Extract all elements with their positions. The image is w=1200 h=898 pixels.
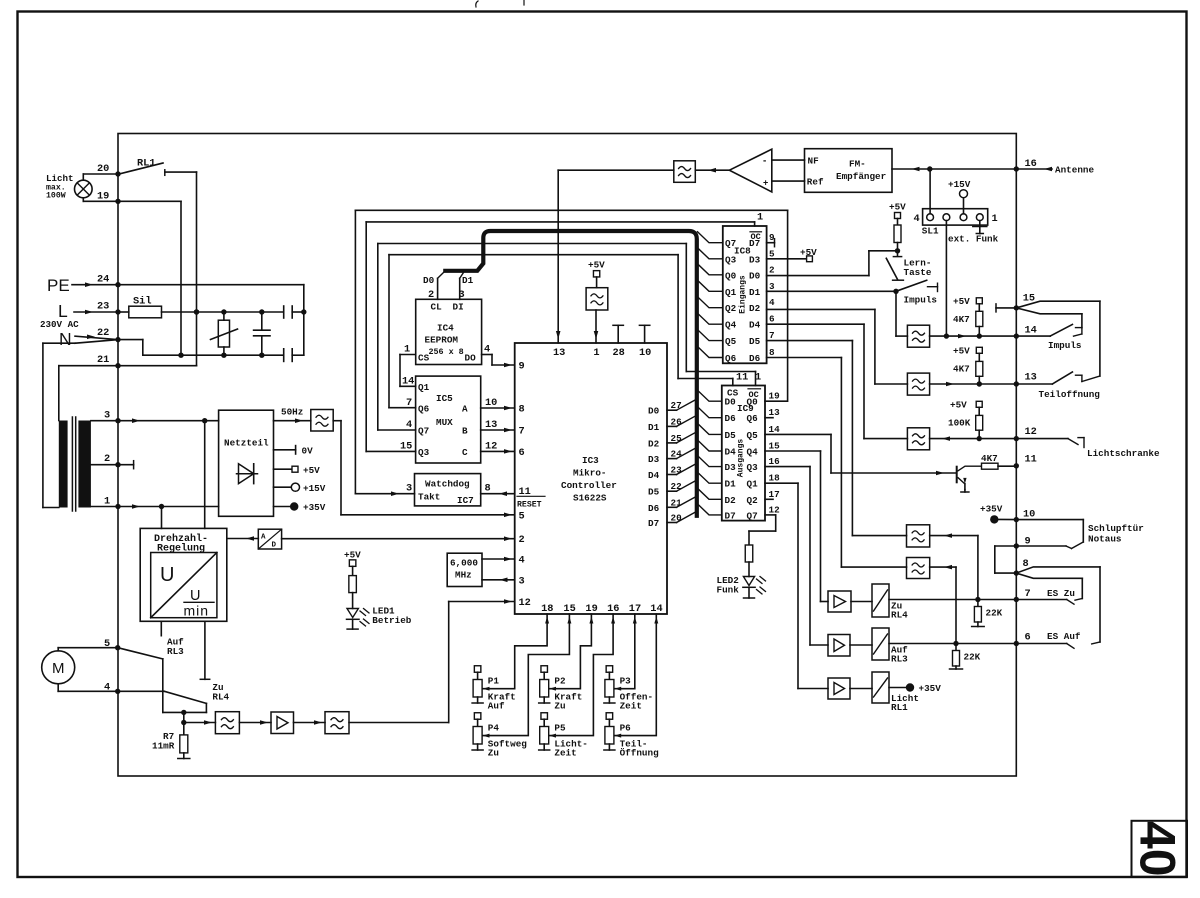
svg-text:Notaus: Notaus — [1088, 534, 1122, 545]
svg-text:Q7: Q7 — [747, 510, 758, 521]
svg-text:D5: D5 — [749, 336, 761, 347]
svg-text:S1622S: S1622S — [573, 493, 607, 504]
svg-text:2: 2 — [104, 453, 110, 465]
svg-text:2: 2 — [428, 289, 434, 301]
svg-text:P1: P1 — [488, 676, 500, 687]
svg-text:Q1: Q1 — [747, 479, 759, 490]
svg-text:D0: D0 — [648, 406, 660, 417]
svg-text:D1: D1 — [725, 479, 737, 490]
svg-text:D7: D7 — [648, 518, 659, 529]
svg-text:D7: D7 — [749, 238, 760, 249]
svg-text:+5V: +5V — [800, 247, 817, 258]
svg-text:D4: D4 — [648, 470, 660, 481]
svg-text:+15V: +15V — [303, 483, 326, 494]
svg-text:L: L — [58, 301, 68, 321]
svg-text:Zeit: Zeit — [620, 701, 642, 712]
svg-text:C: C — [462, 447, 468, 458]
svg-text:Teiloffnung: Teiloffnung — [1039, 389, 1101, 400]
svg-text:PE: PE — [47, 276, 70, 295]
svg-text:1: 1 — [757, 212, 763, 224]
svg-text:A: A — [462, 404, 468, 415]
svg-text:11mR: 11mR — [152, 741, 175, 752]
svg-text:Antenne: Antenne — [1055, 165, 1094, 176]
svg-text:Q7: Q7 — [725, 238, 736, 249]
svg-text:min: min — [184, 603, 210, 619]
svg-text:D6: D6 — [749, 353, 761, 364]
svg-text:3: 3 — [406, 483, 412, 495]
svg-text:D2: D2 — [725, 495, 737, 506]
svg-text:MUX: MUX — [436, 417, 453, 428]
svg-text:Zu: Zu — [554, 701, 565, 712]
svg-text:SL1: SL1 — [922, 226, 939, 237]
svg-text:ES Auf: ES Auf — [1047, 631, 1081, 642]
svg-text:4: 4 — [769, 297, 775, 308]
svg-text:RL4: RL4 — [891, 610, 908, 621]
svg-text:3: 3 — [769, 281, 775, 292]
svg-text:Impuls: Impuls — [1048, 340, 1082, 351]
svg-text:3: 3 — [519, 575, 525, 587]
svg-text:Q1: Q1 — [725, 287, 737, 298]
svg-text:Empfänger: Empfänger — [836, 171, 886, 182]
svg-text:D3: D3 — [648, 454, 660, 465]
svg-text:MHz: MHz — [455, 570, 472, 581]
svg-text:RL4: RL4 — [212, 692, 229, 703]
svg-text:-: - — [763, 156, 766, 167]
svg-text:DI: DI — [453, 302, 464, 313]
svg-text:Auf: Auf — [488, 701, 505, 712]
svg-text:Q0: Q0 — [747, 397, 759, 408]
svg-text:P5: P5 — [554, 723, 566, 734]
svg-text:CL: CL — [431, 302, 443, 313]
svg-text:4: 4 — [519, 555, 525, 567]
svg-text:13: 13 — [769, 407, 781, 418]
svg-text:B: B — [462, 426, 468, 437]
svg-text:Q2: Q2 — [725, 303, 737, 314]
svg-text:Zu: Zu — [488, 748, 499, 759]
svg-text:ext. Funk: ext. Funk — [948, 234, 999, 245]
svg-text:+5V: +5V — [303, 465, 320, 476]
svg-text:Licht: Licht — [46, 173, 74, 184]
svg-text:22K: 22K — [964, 652, 981, 663]
svg-text:100W: 100W — [46, 192, 66, 201]
svg-text:EEPROM: EEPROM — [425, 335, 459, 346]
svg-text:ES Zu: ES Zu — [1047, 588, 1075, 599]
svg-text:2: 2 — [769, 264, 775, 275]
svg-text:13: 13 — [1025, 372, 1037, 384]
svg-text:Q2: Q2 — [747, 495, 759, 506]
svg-text:Controller: Controller — [561, 480, 617, 491]
svg-text:19: 19 — [769, 391, 781, 402]
svg-text:10: 10 — [1023, 509, 1035, 521]
svg-text:12: 12 — [519, 597, 531, 609]
svg-text:230V AC: 230V AC — [40, 319, 79, 330]
svg-text:Ref: Ref — [807, 177, 824, 188]
svg-text:+5V: +5V — [344, 550, 361, 561]
svg-text:Funk: Funk — [717, 584, 740, 595]
svg-text:6: 6 — [519, 447, 525, 459]
svg-text:Q6: Q6 — [747, 413, 759, 424]
svg-text:5: 5 — [519, 510, 525, 522]
svg-text:Q7: Q7 — [418, 426, 429, 437]
svg-text:D0: D0 — [423, 275, 435, 286]
svg-text:Ausgangs: Ausgangs — [737, 439, 746, 478]
svg-text:12: 12 — [1025, 426, 1037, 438]
svg-text:M: M — [52, 660, 65, 677]
svg-text:15: 15 — [400, 440, 412, 452]
svg-text:DO: DO — [465, 353, 477, 364]
svg-text:11: 11 — [736, 372, 748, 384]
svg-text:IC4: IC4 — [437, 323, 454, 334]
svg-text:0V: 0V — [302, 446, 314, 457]
svg-text:D6: D6 — [725, 413, 737, 424]
svg-text:+35V: +35V — [919, 683, 942, 694]
svg-text:Q1: Q1 — [418, 382, 430, 393]
svg-text:9: 9 — [519, 361, 525, 373]
svg-text:+5V: +5V — [588, 260, 605, 271]
svg-text:20: 20 — [97, 163, 109, 175]
svg-text:+5V: +5V — [889, 202, 906, 213]
svg-text:28: 28 — [613, 347, 625, 359]
svg-text:256 x 8: 256 x 8 — [429, 347, 464, 357]
svg-text:D0: D0 — [749, 270, 761, 281]
svg-text:D0: D0 — [725, 397, 737, 408]
svg-text:13: 13 — [485, 419, 497, 431]
svg-text:RESET: RESET — [517, 501, 542, 510]
svg-text:Zeit: Zeit — [554, 748, 576, 759]
svg-text:8: 8 — [485, 483, 491, 495]
svg-text:24: 24 — [97, 274, 109, 286]
svg-text:D1: D1 — [749, 287, 761, 298]
svg-text:D1: D1 — [462, 275, 474, 286]
svg-text:7: 7 — [519, 426, 525, 438]
svg-text:Schlupftür: Schlupftür — [1088, 523, 1144, 534]
svg-text:7: 7 — [1025, 588, 1031, 600]
svg-text:+35V: +35V — [303, 502, 326, 513]
svg-text:RL3: RL3 — [891, 654, 908, 665]
svg-text:15: 15 — [769, 441, 781, 452]
svg-text:+5V: +5V — [953, 296, 970, 307]
svg-text:14: 14 — [1025, 325, 1037, 337]
svg-text:Q6: Q6 — [418, 404, 430, 415]
svg-text:Mikro-: Mikro- — [573, 468, 606, 479]
svg-text:2: 2 — [519, 534, 525, 546]
svg-text:6: 6 — [1025, 632, 1031, 644]
svg-text:D7: D7 — [725, 510, 736, 521]
svg-text:Q0: Q0 — [725, 270, 737, 281]
svg-text:IC5: IC5 — [436, 393, 453, 404]
svg-text:6: 6 — [769, 314, 775, 325]
svg-text:Watchdog: Watchdog — [425, 479, 470, 490]
svg-text:12: 12 — [485, 440, 497, 452]
svg-text:13: 13 — [553, 347, 565, 359]
svg-text:19: 19 — [97, 191, 109, 203]
svg-text:A: A — [261, 534, 266, 542]
svg-text:D5: D5 — [725, 430, 737, 441]
svg-text:50Hz: 50Hz — [281, 407, 303, 418]
svg-text:N: N — [59, 329, 72, 349]
svg-text:D4: D4 — [749, 320, 761, 331]
svg-text:+5V: +5V — [953, 346, 970, 357]
svg-text:D2: D2 — [749, 303, 761, 314]
svg-text:Q3: Q3 — [418, 447, 430, 458]
svg-text:10: 10 — [639, 347, 651, 359]
svg-text:5: 5 — [769, 248, 775, 259]
svg-text:RL1: RL1 — [891, 702, 908, 713]
svg-text:D: D — [272, 542, 277, 550]
svg-text:11: 11 — [1025, 454, 1037, 466]
svg-text:D4: D4 — [725, 447, 737, 458]
svg-text:P2: P2 — [554, 676, 566, 687]
svg-text:4: 4 — [406, 419, 412, 431]
svg-text:P3: P3 — [620, 676, 632, 687]
svg-text:IC3: IC3 — [582, 455, 599, 466]
svg-text:Takt: Takt — [418, 492, 440, 503]
svg-text:22K: 22K — [986, 608, 1003, 619]
svg-text:10: 10 — [485, 397, 497, 409]
svg-text:1: 1 — [992, 213, 998, 225]
svg-text:NF: NF — [808, 156, 820, 167]
svg-text:Q3: Q3 — [725, 254, 737, 265]
svg-text:+5V: +5V — [950, 400, 967, 411]
svg-text:Q5: Q5 — [747, 430, 759, 441]
svg-text:7: 7 — [769, 330, 775, 341]
svg-text:+: + — [763, 178, 768, 188]
svg-text:Taste: Taste — [904, 267, 932, 278]
svg-text:Q5: Q5 — [725, 336, 737, 347]
svg-text:Q3: Q3 — [747, 462, 759, 473]
svg-text:Q4: Q4 — [725, 320, 737, 331]
svg-text:3: 3 — [104, 410, 110, 422]
svg-text:Betrieb: Betrieb — [372, 615, 411, 626]
svg-text:Impuls: Impuls — [904, 295, 938, 306]
svg-text:RL3: RL3 — [167, 646, 184, 657]
svg-text:D2: D2 — [648, 438, 660, 449]
svg-text:8: 8 — [769, 347, 775, 358]
svg-text:IC7: IC7 — [457, 495, 474, 506]
svg-text:CS: CS — [418, 353, 430, 364]
svg-text:Netzteil: Netzteil — [224, 438, 269, 449]
svg-text:+35V: +35V — [980, 504, 1003, 515]
svg-text:1: 1 — [755, 372, 761, 384]
svg-text:40: 40 — [1130, 821, 1186, 877]
svg-text:14: 14 — [769, 424, 781, 435]
svg-text:P6: P6 — [620, 723, 632, 734]
svg-text:4K7: 4K7 — [981, 453, 998, 464]
svg-text:18: 18 — [769, 473, 781, 484]
svg-text:P4: P4 — [488, 723, 500, 734]
svg-text:4K7: 4K7 — [953, 314, 970, 325]
svg-text:22: 22 — [97, 327, 109, 339]
svg-text:21: 21 — [97, 354, 109, 366]
svg-text:23: 23 — [97, 301, 109, 313]
svg-text:16: 16 — [769, 456, 781, 467]
svg-text:12: 12 — [769, 504, 781, 515]
svg-text:Eingangs: Eingangs — [738, 275, 747, 314]
svg-text:+15V: +15V — [948, 179, 971, 190]
svg-text:D1: D1 — [648, 422, 660, 433]
svg-text:14: 14 — [402, 376, 414, 388]
svg-text:Q4: Q4 — [747, 447, 759, 458]
svg-text:Lichtschranke: Lichtschranke — [1087, 448, 1160, 459]
svg-text:FM-: FM- — [849, 159, 866, 170]
svg-text:17: 17 — [769, 489, 780, 500]
svg-text:D6: D6 — [648, 503, 660, 514]
svg-text:D3: D3 — [749, 254, 761, 265]
svg-text:4: 4 — [914, 213, 920, 225]
svg-text:1: 1 — [593, 347, 599, 359]
svg-text:6,000: 6,000 — [450, 558, 478, 569]
svg-text:4K7: 4K7 — [953, 364, 970, 375]
svg-text:Q6: Q6 — [725, 353, 737, 364]
svg-text:D3: D3 — [725, 462, 737, 473]
svg-text:D5: D5 — [648, 487, 660, 498]
svg-text:U: U — [160, 564, 174, 586]
svg-text:Öffnung: Öffnung — [620, 748, 659, 759]
svg-text:100K: 100K — [948, 418, 971, 429]
svg-text:8: 8 — [519, 404, 525, 416]
